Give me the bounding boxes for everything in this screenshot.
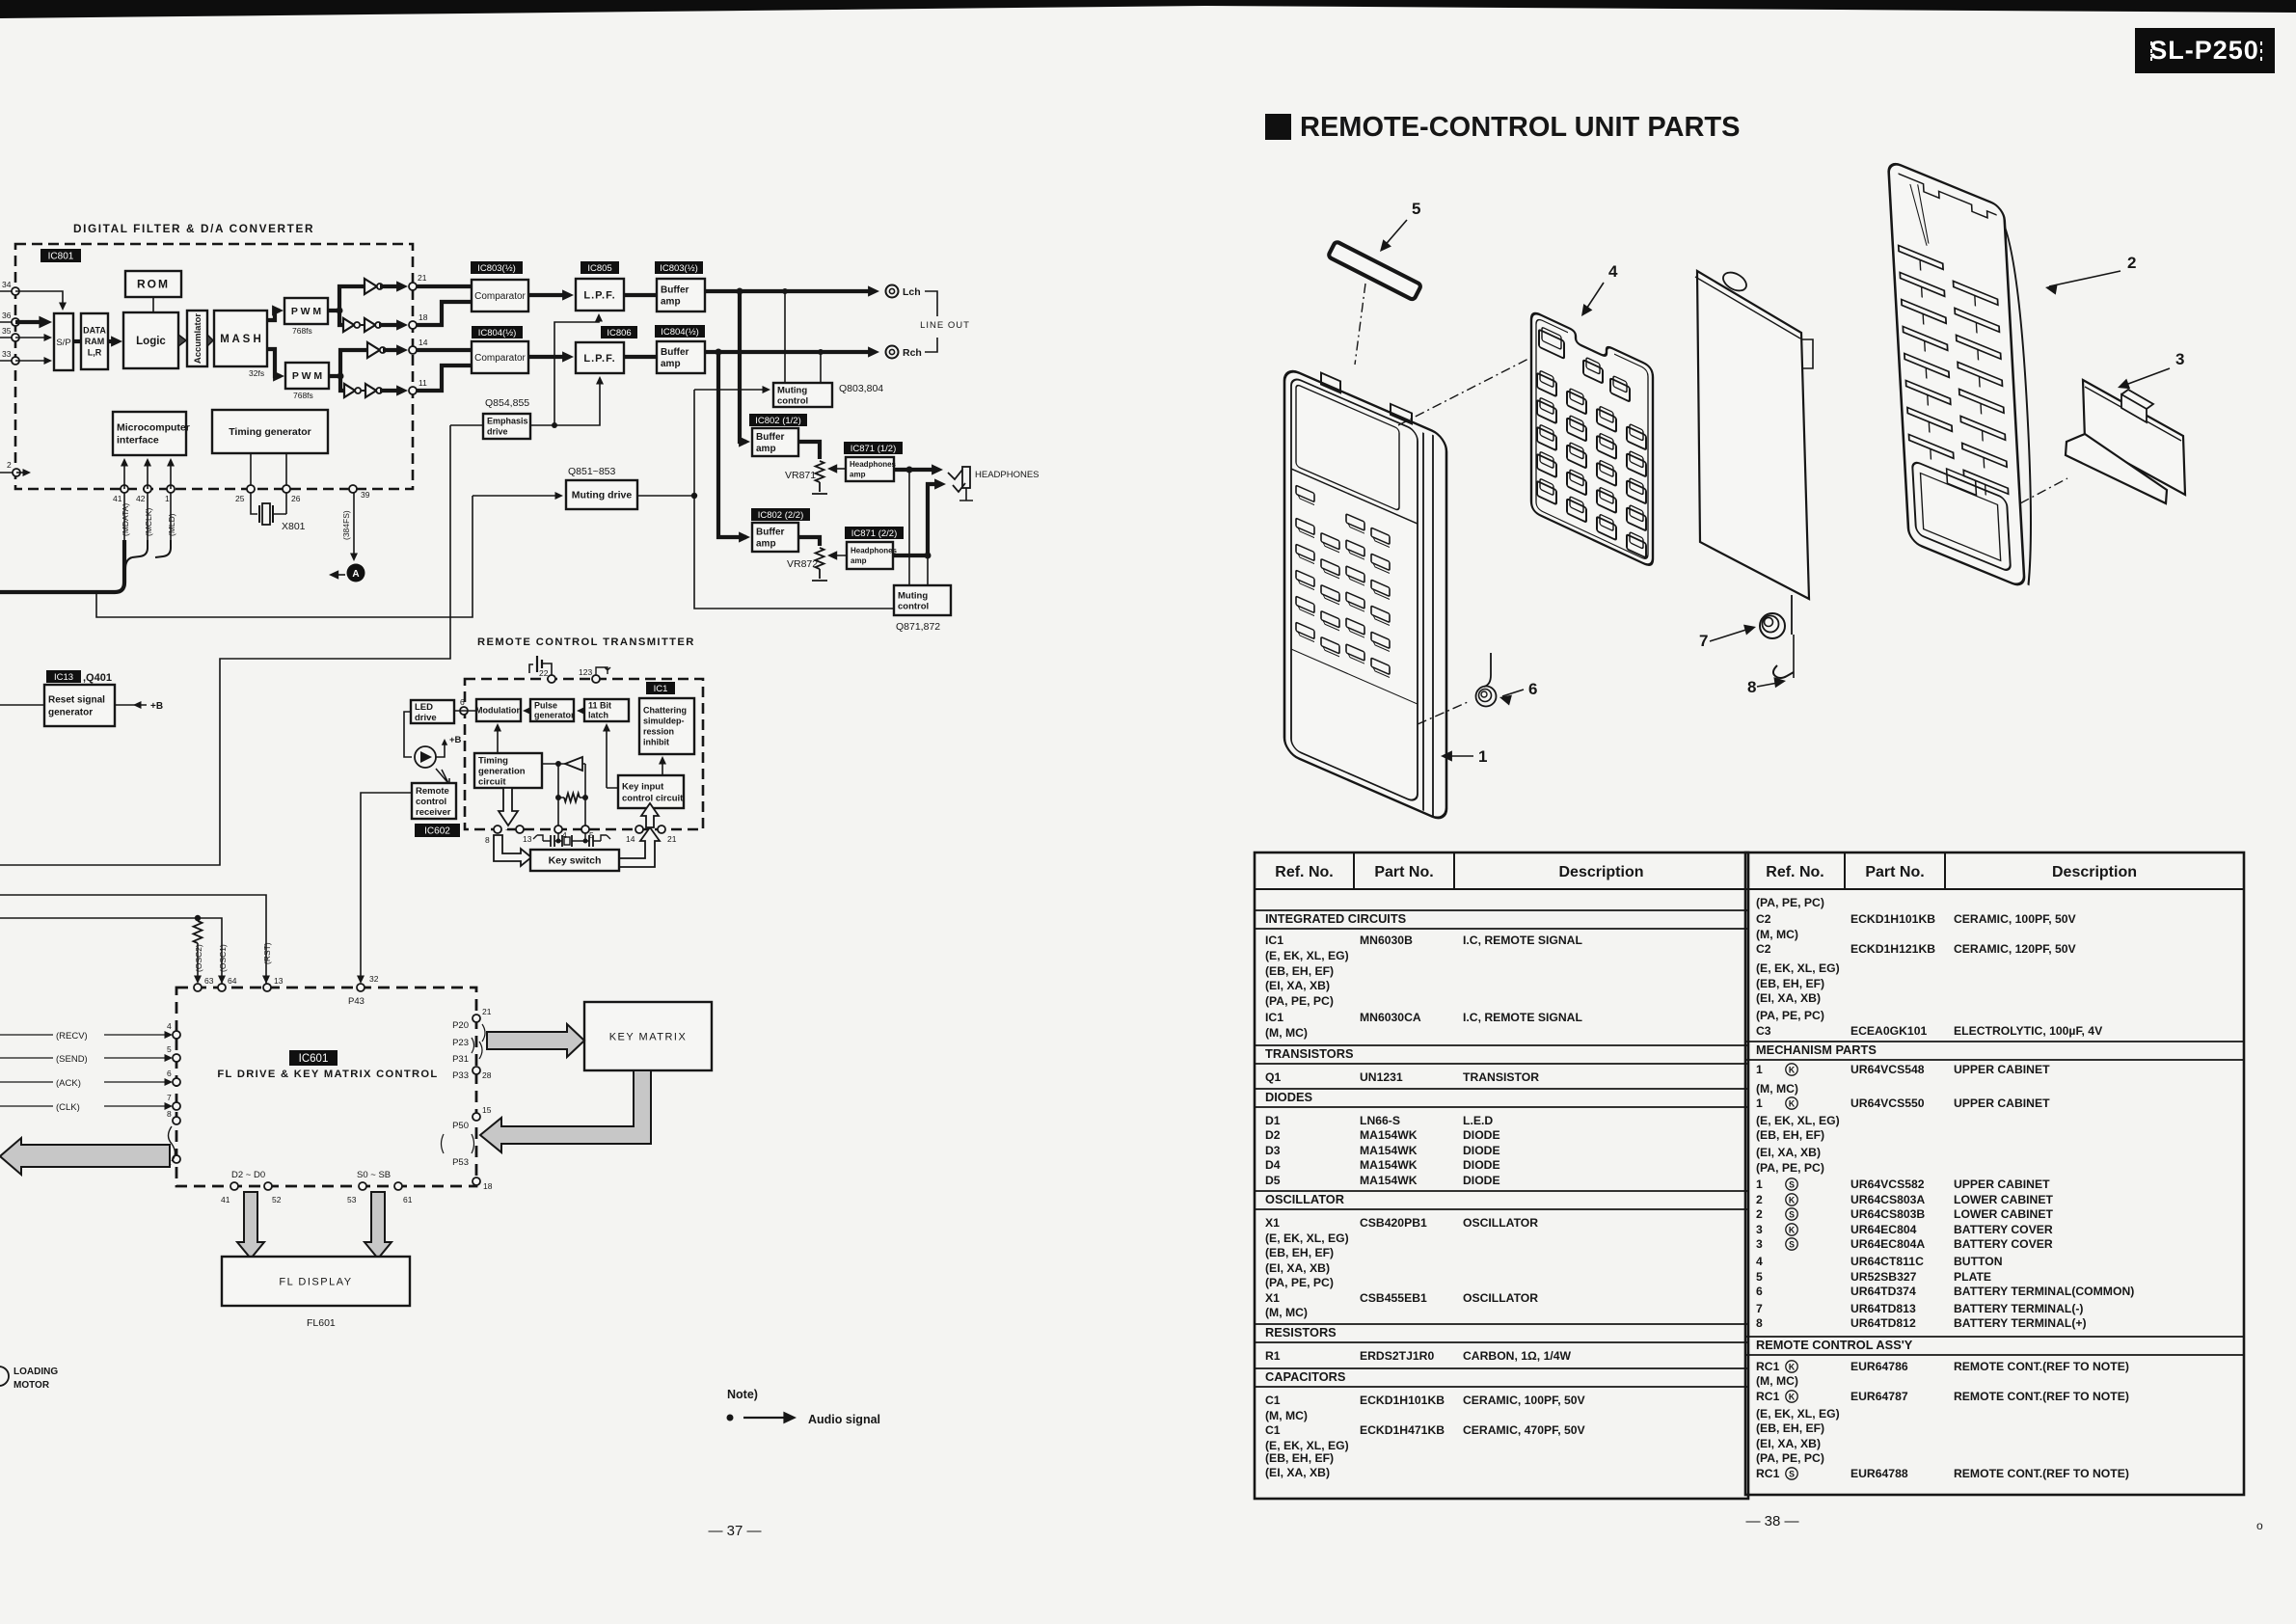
svg-text:P43: P43 bbox=[348, 996, 365, 1007]
svg-text:15: 15 bbox=[482, 1105, 492, 1115]
pin 41 bbox=[121, 485, 128, 493]
svg-text:REMOTE CONT.(REF TO NOTE): REMOTE CONT.(REF TO NOTE) bbox=[1954, 1390, 2129, 1403]
bus PWM1 to inverter row2 bbox=[339, 311, 342, 325]
construction line plate-cabinet bbox=[1355, 284, 1365, 365]
wire RST feed bbox=[0, 895, 266, 984]
wire receiver to P43 bbox=[361, 793, 412, 982]
svg-text:2: 2 bbox=[7, 460, 12, 470]
svg-text:REMOTE CONTROL ASS'Y: REMOTE CONTROL ASS'Y bbox=[1756, 1338, 1913, 1352]
svg-text:52: 52 bbox=[272, 1195, 282, 1204]
svg-text:CERAMIC, 470PF, 50V: CERAMIC, 470PF, 50V bbox=[1463, 1423, 1586, 1437]
svg-text:(OSC2): (OSC2) bbox=[194, 944, 203, 972]
pin 11 IC601 bbox=[173, 1155, 180, 1163]
pin 14 bbox=[409, 346, 417, 354]
label IC871 (1/2) bbox=[844, 442, 903, 454]
svg-text:UR64CT811C: UR64CT811C bbox=[1850, 1255, 1924, 1268]
block LPF 1 bbox=[576, 279, 624, 311]
svg-text:circuit: circuit bbox=[478, 776, 506, 787]
svg-text:UR52SB327: UR52SB327 bbox=[1850, 1270, 1917, 1284]
svg-text:Microcomputer: Microcomputer bbox=[117, 422, 190, 434]
svg-text:(M, MC): (M, MC) bbox=[1265, 1409, 1308, 1422]
pin 52 IC601 bbox=[264, 1182, 272, 1190]
pin 8 IC1 bbox=[494, 826, 501, 833]
svg-text:768fs: 768fs bbox=[292, 326, 312, 336]
svg-text:UPPER CABINET: UPPER CABINET bbox=[1954, 1096, 2050, 1110]
svg-text:CERAMIC, 100PF, 50V: CERAMIC, 100PF, 50V bbox=[1463, 1394, 1586, 1407]
block Chattering simuldepression inhibit bbox=[639, 698, 694, 754]
wire ACK bbox=[0, 1081, 170, 1083]
wire keyinput to latch bbox=[607, 725, 618, 788]
svg-text:DIODE: DIODE bbox=[1463, 1174, 1500, 1187]
block Emphasis drive bbox=[483, 414, 530, 439]
svg-text:RC1: RC1 bbox=[1756, 1360, 1780, 1373]
bus arrow to FL display data bbox=[237, 1192, 264, 1259]
svg-text:DIODE: DIODE bbox=[1463, 1144, 1500, 1157]
svg-text:(E, EK, XL, EG): (E, EK, XL, EG) bbox=[1756, 1407, 1840, 1421]
block Timing generation circuit bbox=[474, 753, 542, 788]
bus Lch to buffer IC802-1 bbox=[740, 291, 746, 442]
svg-text:Ref. No.: Ref. No. bbox=[1766, 864, 1823, 880]
svg-text:BATTERY COVER: BATTERY COVER bbox=[1954, 1237, 2053, 1251]
inverter row3 bbox=[367, 342, 380, 358]
svg-text:IC803(½): IC803(½) bbox=[477, 263, 516, 274]
svg-text:(E, EK, XL, EG): (E, EK, XL, EG) bbox=[1265, 1439, 1349, 1452]
svg-text:(EB, EH, EF): (EB, EH, EF) bbox=[1756, 1128, 1824, 1142]
svg-text:Lch: Lch bbox=[903, 286, 921, 298]
wire PCB leg bbox=[1791, 595, 1793, 635]
block Headphones amp 2 bbox=[847, 542, 898, 569]
svg-text:1: 1 bbox=[1756, 1177, 1763, 1191]
svg-text:I.C, REMOTE SIGNAL: I.C, REMOTE SIGNAL bbox=[1463, 934, 1582, 947]
block Buffer amp 1 bbox=[657, 279, 705, 311]
svg-text:LINE OUT: LINE OUT bbox=[920, 320, 970, 331]
wire emphasis out bbox=[530, 424, 554, 426]
svg-text:INTEGRATED CIRCUITS: INTEGRATED CIRCUITS bbox=[1265, 911, 1407, 926]
svg-text:2: 2 bbox=[2127, 254, 2136, 272]
svg-text:MN6030CA: MN6030CA bbox=[1360, 1011, 1421, 1024]
block PWM lower bbox=[285, 363, 329, 389]
svg-text:ECKD1H101KB: ECKD1H101KB bbox=[1850, 912, 1935, 926]
svg-text:21: 21 bbox=[482, 1007, 492, 1016]
construction line cabinet-terminal bbox=[1418, 702, 1468, 724]
bus pin14 to comparator2 bbox=[417, 348, 472, 352]
svg-text:CARBON, 1Ω, 1/4W: CARBON, 1Ω, 1/4W bbox=[1463, 1349, 1572, 1363]
svg-text:amp: amp bbox=[851, 556, 867, 565]
legend arrow line bbox=[743, 1417, 787, 1419]
svg-text:IC602: IC602 bbox=[424, 826, 450, 837]
pin 13 IC1 bbox=[516, 826, 524, 833]
svg-text:C1: C1 bbox=[1265, 1394, 1281, 1407]
svg-text:LOADING: LOADING bbox=[14, 1367, 58, 1377]
svg-text:Description: Description bbox=[1558, 864, 1643, 880]
junction OSC2 bbox=[195, 915, 201, 921]
svg-text:S0 ~ SB: S0 ~ SB bbox=[357, 1170, 391, 1180]
svg-text:KEY MATRIX: KEY MATRIX bbox=[609, 1031, 688, 1042]
IC601 dashed outline bbox=[176, 988, 476, 1186]
inverter osc feedback bbox=[565, 757, 582, 771]
svg-text:14: 14 bbox=[419, 338, 428, 347]
svg-text:MECHANISM PARTS: MECHANISM PARTS bbox=[1756, 1042, 1877, 1057]
wire reset input bbox=[0, 704, 44, 706]
svg-text:Q851~853: Q851~853 bbox=[568, 466, 615, 477]
resistor osc feedback bbox=[564, 794, 580, 802]
svg-text:(EI, XA, XB): (EI, XA, XB) bbox=[1265, 1261, 1330, 1275]
svg-text:IC1: IC1 bbox=[1265, 1011, 1283, 1024]
block PWM upper bbox=[284, 298, 328, 324]
svg-text:generator: generator bbox=[534, 711, 575, 720]
svg-text:D5: D5 bbox=[1265, 1174, 1281, 1187]
parts table left bbox=[1255, 853, 1748, 1499]
wire muting feed to Q803-804 bbox=[694, 389, 767, 391]
svg-text:53: 53 bbox=[347, 1195, 357, 1204]
bus hp amp2 to jack bbox=[893, 484, 941, 555]
wire muting drive input bbox=[473, 495, 559, 497]
svg-text:X1: X1 bbox=[1265, 1216, 1280, 1230]
svg-text:generator: generator bbox=[48, 708, 93, 718]
svg-text:control: control bbox=[416, 797, 446, 807]
battery symbol pin22 bbox=[529, 664, 533, 673]
bus arrow IC601 to key matrix bbox=[487, 1024, 584, 1057]
block Modulation bbox=[475, 699, 522, 721]
svg-text:21: 21 bbox=[418, 273, 427, 283]
svg-text:Logic: Logic bbox=[136, 336, 166, 347]
svg-text:P W M: P W M bbox=[292, 370, 323, 382]
svg-text:RC1: RC1 bbox=[1756, 1467, 1780, 1480]
svg-text:D4: D4 bbox=[1265, 1158, 1281, 1172]
svg-text:4: 4 bbox=[1608, 262, 1618, 281]
junction hp L bbox=[906, 467, 913, 474]
junction Lch-HPL bbox=[737, 288, 743, 295]
svg-text:Part No.: Part No. bbox=[1865, 864, 1924, 880]
svg-text:Pulse: Pulse bbox=[534, 701, 557, 711]
svg-text:IC802 (1/2): IC802 (1/2) bbox=[755, 416, 801, 426]
svg-text:BATTERY TERMINAL(-): BATTERY TERMINAL(-) bbox=[1954, 1302, 2084, 1315]
bus buffer1 to Lch bbox=[705, 289, 873, 293]
svg-text:(EB, EH, EF): (EB, EH, EF) bbox=[1265, 1451, 1334, 1465]
block MASH bbox=[214, 311, 267, 366]
svg-text:11: 11 bbox=[419, 378, 427, 388]
svg-text:(CLK): (CLK) bbox=[56, 1102, 80, 1113]
pin 1 bbox=[167, 485, 175, 493]
svg-text:LOWER CABINET: LOWER CABINET bbox=[1954, 1193, 2053, 1206]
block Microcomputer interface bbox=[113, 412, 190, 455]
svg-text:(M, MC): (M, MC) bbox=[1265, 1026, 1308, 1040]
svg-text:DIODE: DIODE bbox=[1463, 1128, 1500, 1142]
svg-text:L,R: L,R bbox=[88, 348, 102, 358]
svg-text:Buffer: Buffer bbox=[756, 528, 785, 538]
svg-text:IC601: IC601 bbox=[299, 1053, 329, 1065]
svg-text:Rch: Rch bbox=[903, 347, 922, 359]
label IC602 bbox=[415, 824, 460, 837]
svg-text:1: 1 bbox=[1478, 747, 1487, 766]
pin 28 IC601 bbox=[473, 1067, 480, 1074]
svg-text:(MLD): (MLD) bbox=[167, 513, 176, 536]
svg-text:OSCILLATOR: OSCILLATOR bbox=[1463, 1291, 1538, 1305]
svg-text:(SEND): (SEND) bbox=[56, 1054, 88, 1065]
IC1 dashed outline bbox=[465, 679, 703, 829]
bus PWM2 to inverter row4 bbox=[340, 376, 343, 391]
svg-text:13: 13 bbox=[274, 976, 284, 986]
svg-text:BUTTON: BUTTON bbox=[1954, 1255, 2003, 1268]
wire pin33 to S/P bbox=[15, 360, 46, 362]
svg-text:(M, MC): (M, MC) bbox=[1265, 1306, 1308, 1319]
bus row2 to pin18 bbox=[379, 323, 403, 327]
svg-text:L.P.F.: L.P.F. bbox=[583, 289, 615, 301]
bus MASH to PWM2 bbox=[267, 349, 281, 376]
svg-text:(EI, XA, XB): (EI, XA, XB) bbox=[1756, 1146, 1821, 1159]
svg-text:TRANSISTOR: TRANSISTOR bbox=[1463, 1070, 1539, 1084]
svg-text:Q803,804: Q803,804 bbox=[839, 383, 883, 394]
bus Logic to Accumulator (block arrow) bbox=[178, 335, 186, 346]
svg-text:33: 33 bbox=[2, 349, 12, 359]
mechanism part 5 plate bbox=[1328, 241, 1421, 300]
svg-text:DATA: DATA bbox=[83, 326, 106, 336]
svg-text:Buffer: Buffer bbox=[661, 285, 689, 296]
svg-text:amp: amp bbox=[661, 359, 681, 369]
svg-text:CSB420PB1: CSB420PB1 bbox=[1360, 1216, 1427, 1230]
inverter row2a bbox=[343, 318, 354, 332]
svg-text:o: o bbox=[2256, 1519, 2263, 1532]
block Accumulator bbox=[187, 311, 207, 366]
pin 34 bbox=[12, 287, 19, 295]
label IC871 (2/2) bbox=[845, 527, 904, 539]
svg-text:receiver: receiver bbox=[416, 807, 451, 818]
svg-text:36: 36 bbox=[2, 311, 12, 320]
svg-text:DIODES: DIODES bbox=[1265, 1090, 1313, 1104]
wire Rch to muting control bbox=[820, 352, 822, 383]
wire row4 link bbox=[362, 390, 365, 392]
svg-text:(RECV): (RECV) bbox=[56, 1031, 88, 1042]
svg-text:inhibit: inhibit bbox=[643, 738, 669, 747]
pin 41 IC601 bbox=[230, 1182, 238, 1190]
junction emphasis bbox=[552, 422, 557, 428]
svg-text:7: 7 bbox=[1699, 632, 1708, 650]
construction line cabinet-keypad bbox=[1398, 357, 1532, 425]
svg-text:K: K bbox=[1789, 1099, 1796, 1109]
svg-text:S: S bbox=[1789, 1470, 1795, 1479]
svg-text:1: 1 bbox=[1756, 1096, 1763, 1110]
svg-text:(OSC1): (OSC1) bbox=[218, 944, 228, 972]
svg-text:Timing generator: Timing generator bbox=[229, 426, 311, 438]
svg-text:Description: Description bbox=[2052, 864, 2137, 880]
wire muting to Q803-804 riser bbox=[693, 390, 695, 496]
junction osc B bbox=[555, 795, 561, 800]
junction hp R bbox=[925, 553, 932, 559]
block arrow up into key input bbox=[641, 803, 659, 827]
svg-text:S: S bbox=[1789, 1240, 1795, 1250]
LED emission arrow bbox=[436, 769, 449, 785]
svg-text:18: 18 bbox=[419, 312, 428, 322]
svg-text:FL601: FL601 bbox=[307, 1317, 336, 1329]
svg-text:~: ~ bbox=[505, 826, 511, 836]
right page title bbox=[1265, 114, 1291, 140]
svg-text:L.E.D: L.E.D bbox=[1463, 1114, 1493, 1127]
svg-text:768fs: 768fs bbox=[293, 391, 313, 400]
svg-text:UR64EC804: UR64EC804 bbox=[1850, 1223, 1917, 1236]
wire ROM to Logic bbox=[152, 297, 154, 312]
label IC13 bbox=[46, 670, 81, 683]
wire left-edge input stubs bbox=[0, 291, 15, 473]
svg-text:FL DISPLAY: FL DISPLAY bbox=[279, 1276, 352, 1287]
wire pin34 to S/P bbox=[15, 291, 63, 307]
bus arrow key matrix to IC601 bbox=[480, 1070, 651, 1152]
bus Accumulator to MASH (block arrow) bbox=[207, 335, 213, 346]
pin 6 IC601 bbox=[173, 1078, 180, 1086]
svg-text:25: 25 bbox=[235, 494, 245, 503]
pin 63 bbox=[194, 984, 202, 991]
wire timing to pin26 bbox=[285, 453, 287, 485]
svg-text:6: 6 bbox=[1528, 680, 1537, 698]
svg-text:MN6030B: MN6030B bbox=[1360, 934, 1413, 947]
svg-text:(384FS): (384FS) bbox=[341, 510, 351, 540]
bus LPF2 to buffer2 bbox=[624, 355, 657, 359]
svg-text:7: 7 bbox=[1756, 1302, 1763, 1315]
junction Lch-mute bbox=[782, 288, 788, 294]
mechanism part 6 battery terminal bbox=[1476, 687, 1497, 707]
wire LED drive to modulation bbox=[454, 710, 476, 712]
block arrow pin8 to key switch bbox=[494, 835, 531, 866]
wire timing to modulation bbox=[497, 725, 499, 753]
svg-text:P50: P50 bbox=[452, 1121, 469, 1131]
svg-text:(M, MC): (M, MC) bbox=[1756, 928, 1798, 941]
svg-text:RESISTORS: RESISTORS bbox=[1265, 1325, 1337, 1340]
wire pin41 to interface bbox=[123, 461, 125, 489]
svg-text:1: 1 bbox=[165, 494, 170, 503]
svg-text:IC804(½): IC804(½) bbox=[661, 327, 699, 338]
block Pulse generator bbox=[530, 699, 575, 721]
svg-text:IC805: IC805 bbox=[587, 263, 611, 274]
svg-text:VR872: VR872 bbox=[787, 558, 818, 570]
svg-text:(E, EK, XL, EG): (E, EK, XL, EG) bbox=[1265, 1232, 1349, 1245]
svg-text:(E, EK, XL, EG): (E, EK, XL, EG) bbox=[1756, 1114, 1840, 1127]
svg-text:VR871: VR871 bbox=[785, 470, 816, 481]
wire timing to pin25 bbox=[250, 453, 252, 485]
svg-text:K: K bbox=[1789, 1363, 1796, 1372]
wire MLD drop bbox=[170, 493, 172, 540]
svg-text:K: K bbox=[1789, 1196, 1796, 1205]
svg-text:REMOTE-CONTROL UNIT PARTS: REMOTE-CONTROL UNIT PARTS bbox=[1300, 112, 1740, 143]
svg-text:D2: D2 bbox=[1265, 1128, 1281, 1142]
bus row4 to pin11 bbox=[380, 389, 403, 392]
svg-text:14: 14 bbox=[626, 834, 635, 844]
bus row1 to pin21 bbox=[380, 284, 403, 288]
block arrow keyswitch up to pin14 bbox=[619, 827, 660, 867]
svg-text:IC802 (2/2): IC802 (2/2) bbox=[758, 510, 804, 521]
wire emphasis to LPF1 bbox=[554, 315, 599, 425]
wire VR871 wiper bbox=[830, 468, 846, 470]
block Key switch bbox=[530, 850, 619, 871]
pin 39 bbox=[349, 485, 357, 493]
pin 4 IC601 bbox=[173, 1031, 180, 1039]
svg-text:Comparator: Comparator bbox=[474, 353, 526, 364]
crystal X801 bbox=[251, 493, 257, 514]
svg-text:ECKD1H101KB: ECKD1H101KB bbox=[1360, 1394, 1445, 1407]
svg-text:21: 21 bbox=[667, 834, 677, 844]
label IC803(1/2) a bbox=[471, 261, 523, 274]
scan edge top bar bbox=[0, 0, 2296, 18]
svg-text:ECKD1H121KB: ECKD1H121KB bbox=[1850, 942, 1935, 956]
label IC801 bbox=[41, 249, 81, 262]
svg-text:D2 ~ D0: D2 ~ D0 bbox=[231, 1170, 265, 1180]
svg-text:41: 41 bbox=[113, 494, 122, 503]
bus S/P to DATA RAM bbox=[73, 339, 81, 343]
svg-text:P23: P23 bbox=[452, 1038, 469, 1048]
svg-text:64: 64 bbox=[228, 976, 237, 986]
mechanism part 4 button sheet bbox=[1531, 311, 1653, 568]
svg-text:(PA, PE, PC): (PA, PE, PC) bbox=[1265, 994, 1334, 1008]
pin 21 bbox=[409, 283, 417, 290]
bus PWM1 to inverter row1 bbox=[328, 286, 364, 311]
svg-text:D1: D1 bbox=[1265, 1114, 1281, 1127]
svg-text:,Q401: ,Q401 bbox=[83, 672, 112, 684]
svg-text:+B: +B bbox=[449, 735, 462, 745]
svg-text:Buffer: Buffer bbox=[756, 432, 785, 443]
svg-text:latch: latch bbox=[588, 711, 608, 720]
svg-text:REMOTE CONTROL TRANSMITTER: REMOTE CONTROL TRANSMITTER bbox=[477, 636, 695, 648]
svg-text:MA154WK: MA154WK bbox=[1360, 1158, 1418, 1172]
block Headphones amp 1 bbox=[846, 457, 897, 481]
svg-text:UR64EC804A: UR64EC804A bbox=[1850, 1237, 1925, 1251]
svg-text:63: 63 bbox=[204, 976, 214, 986]
svg-text:UN1231: UN1231 bbox=[1360, 1070, 1403, 1084]
pin 42 bbox=[144, 485, 151, 493]
svg-text:(EI, XA, XB): (EI, XA, XB) bbox=[1756, 991, 1821, 1005]
svg-text:UR64CS803B: UR64CS803B bbox=[1850, 1207, 1925, 1221]
bus Rch to buffer IC802-2 bbox=[718, 352, 746, 537]
inverter row1 bbox=[365, 279, 377, 294]
svg-text:ELECTROLYTIC, 100µF, 4V: ELECTROLYTIC, 100µF, 4V bbox=[1954, 1024, 2103, 1038]
svg-text:Comparator: Comparator bbox=[474, 291, 526, 302]
svg-text:K: K bbox=[1789, 1066, 1796, 1075]
potentiometer VR871 bbox=[816, 461, 824, 482]
resistor OSC2 pullup bbox=[194, 921, 203, 943]
block Remote control receiver bbox=[412, 783, 456, 819]
block Muting drive bbox=[566, 480, 637, 509]
block Buffer amp IC802-2 bbox=[752, 523, 798, 552]
wire emphasis to LPF2 bbox=[554, 378, 600, 425]
svg-text:C2: C2 bbox=[1756, 942, 1771, 956]
pin 25 bbox=[247, 485, 255, 493]
svg-text:SL-P250: SL-P250 bbox=[2149, 36, 2259, 65]
pin 2 bbox=[13, 469, 20, 476]
svg-text:(EB, EH, EF): (EB, EH, EF) bbox=[1265, 964, 1334, 978]
pin 5 IC1 bbox=[581, 826, 589, 833]
pin 53 IC601 bbox=[359, 1182, 366, 1190]
pin 8 IC601 bbox=[173, 1117, 180, 1124]
svg-text:Key switch: Key switch bbox=[549, 855, 602, 867]
label IC802 (1/2) bbox=[749, 414, 807, 426]
pin 13 IC601 bbox=[263, 984, 271, 991]
svg-text:IC804(½): IC804(½) bbox=[478, 328, 517, 338]
svg-text:K: K bbox=[1789, 1226, 1796, 1235]
svg-text:Buffer: Buffer bbox=[661, 347, 689, 358]
wire emphasis input bbox=[450, 424, 483, 426]
pin 21 IC601 bbox=[473, 1015, 480, 1022]
wire muting feed from bus bbox=[96, 496, 473, 617]
svg-text:IC803(½): IC803(½) bbox=[660, 263, 698, 274]
construction line cabinet-cover bbox=[2020, 478, 2067, 503]
svg-text:C1: C1 bbox=[1265, 1423, 1281, 1437]
svg-text:D3: D3 bbox=[1265, 1144, 1281, 1157]
svg-text:22: 22 bbox=[539, 668, 549, 678]
inverter row2b bbox=[365, 318, 375, 332]
ground VR872 bbox=[812, 569, 827, 581]
svg-text:UPPER CABINET: UPPER CABINET bbox=[1954, 1177, 2050, 1191]
svg-text:interface: interface bbox=[117, 435, 159, 447]
pin 15 IC601 bbox=[473, 1113, 480, 1121]
svg-text:amp: amp bbox=[661, 297, 681, 308]
block ROM bbox=[125, 271, 181, 297]
